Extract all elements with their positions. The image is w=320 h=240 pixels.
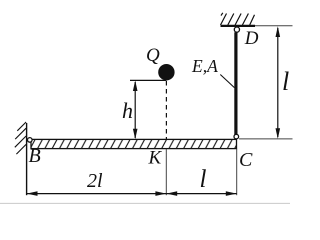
rod CD (elastic rod E,A) xyxy=(234,32,237,134)
svg-text:l: l xyxy=(200,166,207,193)
ceiling hatching xyxy=(221,13,255,25)
h dimension line xyxy=(133,80,138,139)
faint page rule at bottom xyxy=(0,202,290,204)
dashed drop line from ball to K xyxy=(165,81,167,139)
svg-text:E,A: E,A xyxy=(191,56,218,76)
extension line below K xyxy=(165,149,167,195)
extension line right of C xyxy=(239,138,293,140)
wall support at B (vertical line) xyxy=(26,123,28,195)
svg-text:C: C xyxy=(239,149,253,171)
ball Q xyxy=(158,64,174,80)
svg-text:K: K xyxy=(148,148,163,169)
pin D xyxy=(234,27,239,32)
right dimension line l (vertical) xyxy=(276,26,281,139)
extension line below C xyxy=(236,149,238,195)
svg-text:h: h xyxy=(122,98,133,123)
svg-text:l: l xyxy=(282,67,289,96)
pin B xyxy=(28,138,33,143)
svg-text:B: B xyxy=(29,145,41,167)
svg-text:Q: Q xyxy=(146,45,160,66)
ceiling extension line (top of right dimension) xyxy=(255,25,293,27)
bottom dimension line l xyxy=(166,191,236,196)
pin C xyxy=(234,134,239,139)
wall hatching at B xyxy=(15,122,26,154)
beam BC (hatched bar) xyxy=(31,139,237,148)
reference line at ball bottom xyxy=(130,79,166,81)
svg-text:D: D xyxy=(244,28,259,49)
leader line from E,A to rod xyxy=(220,75,234,88)
svg-text:2l: 2l xyxy=(87,170,103,192)
bottom dimension line 2l xyxy=(27,191,167,196)
ceiling line at D xyxy=(221,25,256,27)
